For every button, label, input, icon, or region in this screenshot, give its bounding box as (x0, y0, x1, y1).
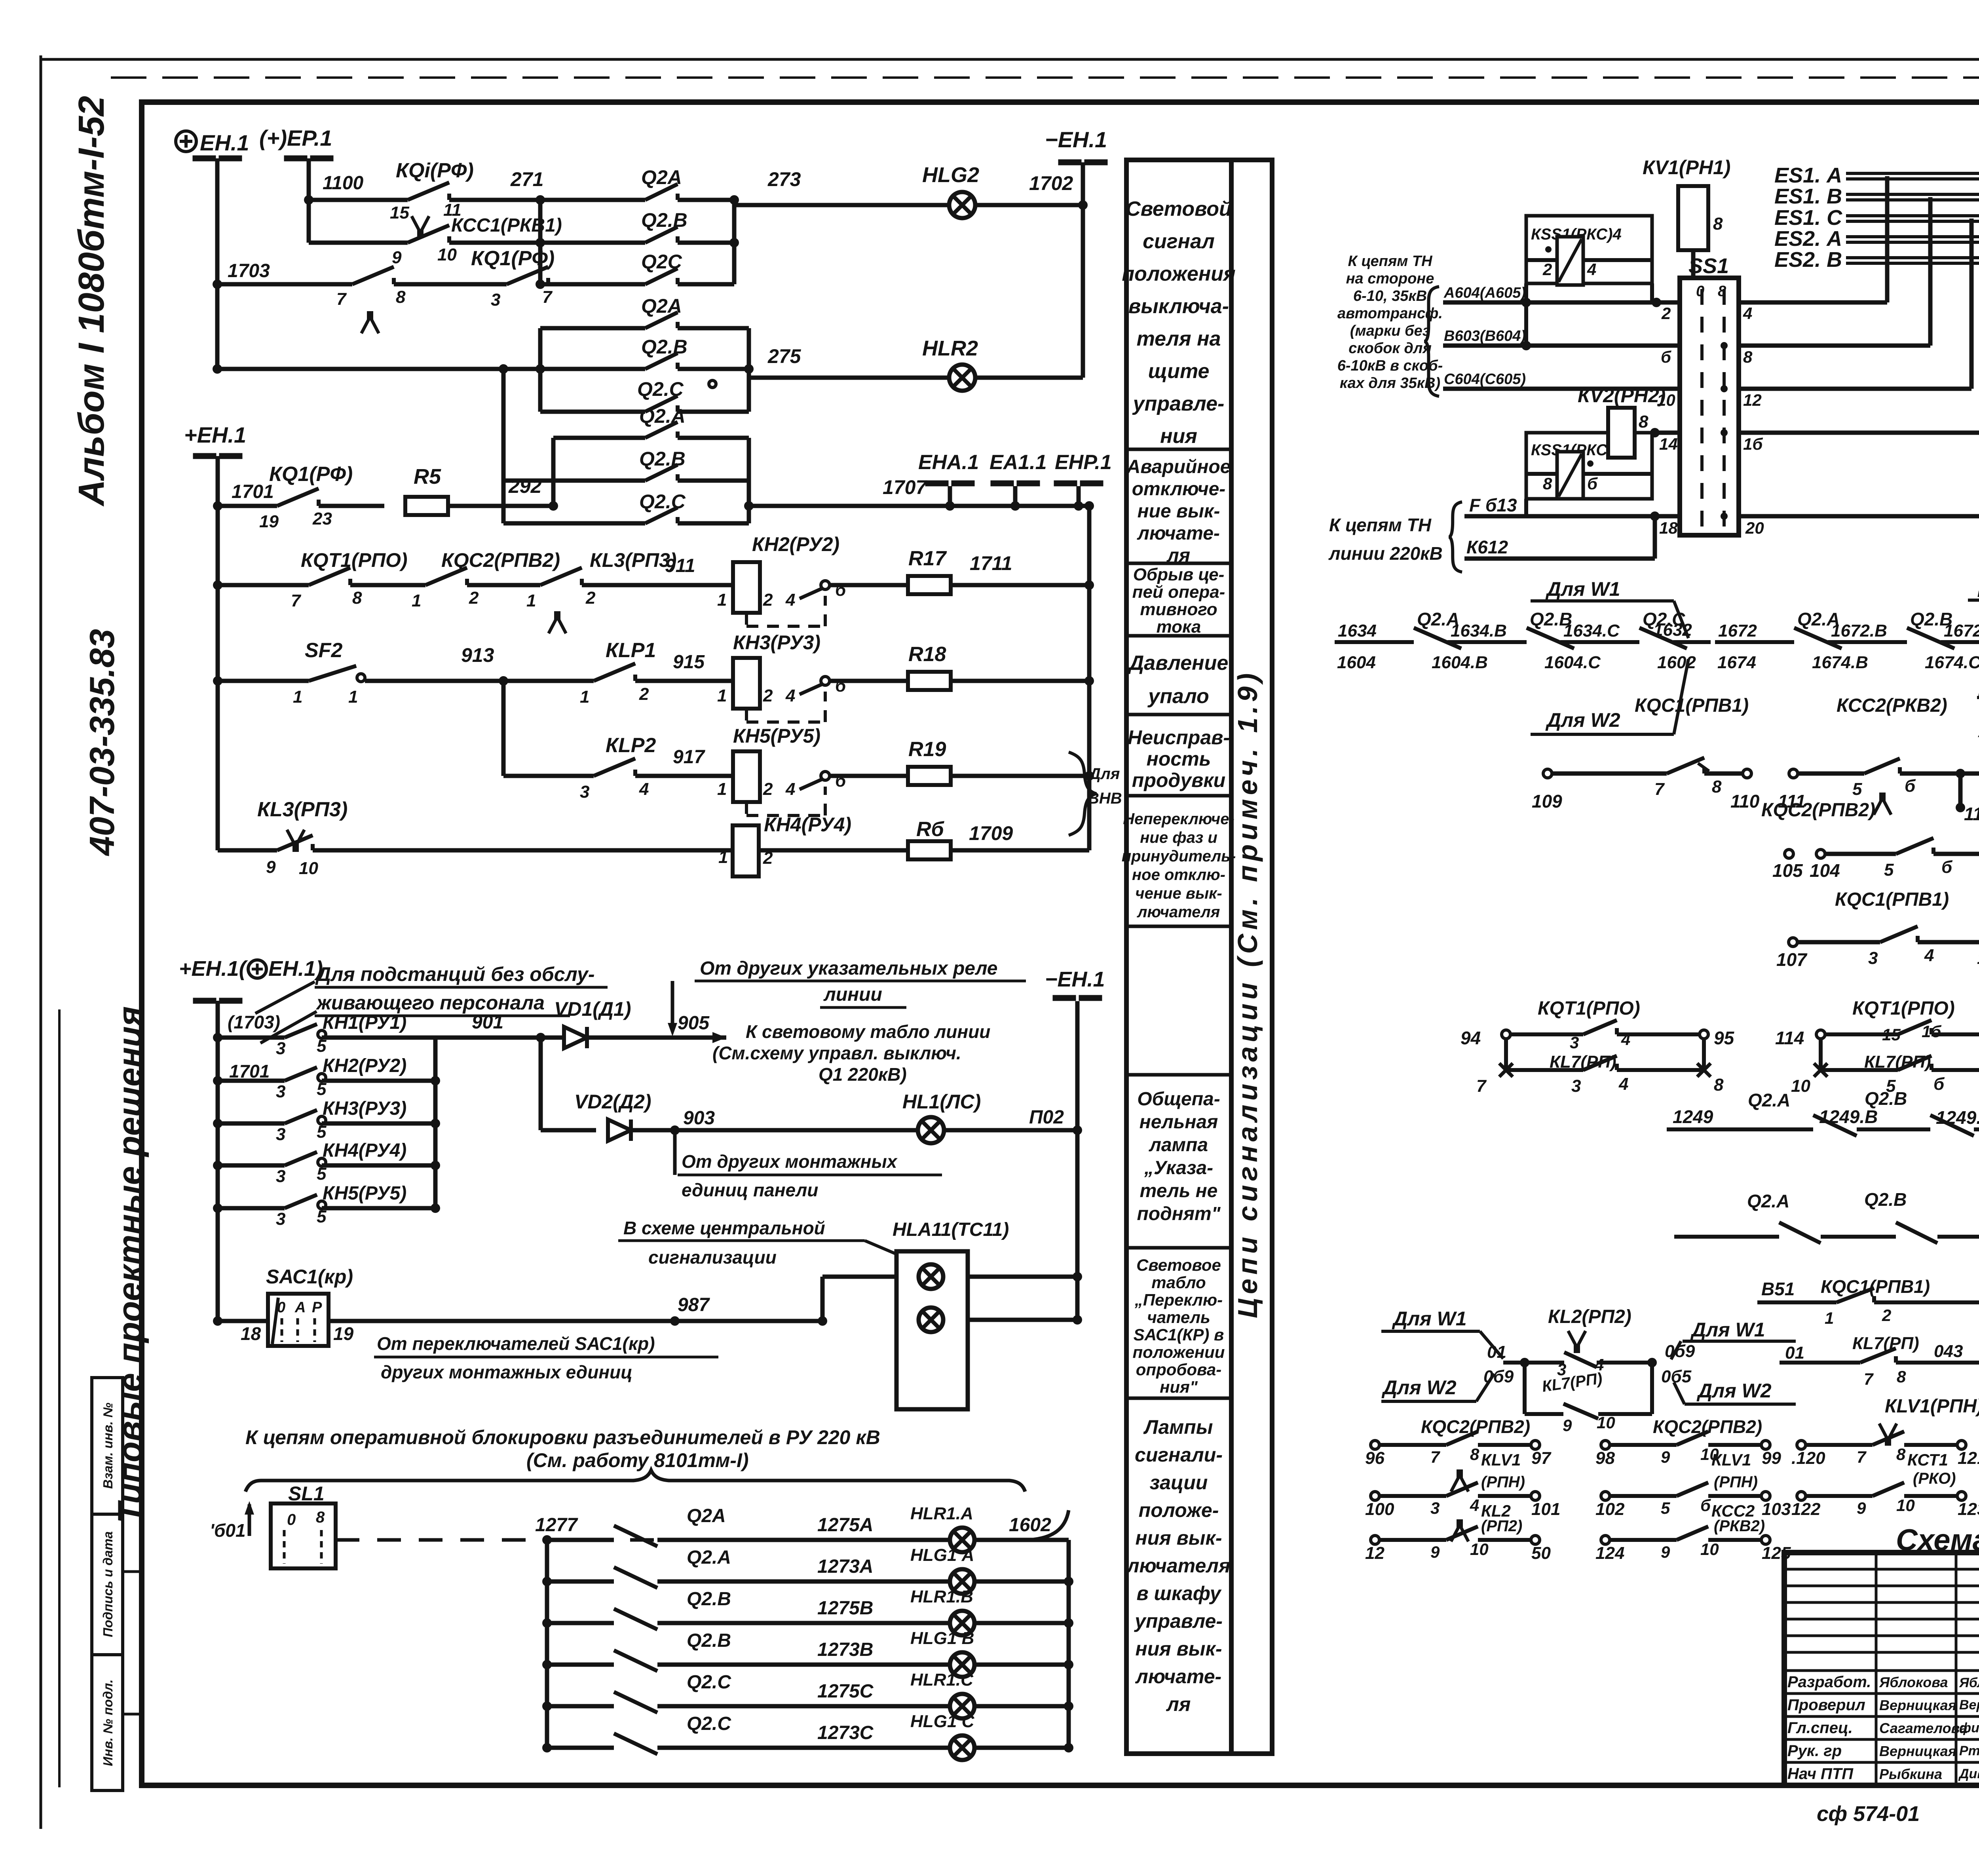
svg-text:НLR1.А: НLR1.А (910, 1504, 973, 1523)
svg-text:(РКВ2): (РКВ2) (1714, 1517, 1765, 1535)
svg-text:6-10, 35кВ: 6-10, 35кВ (1353, 288, 1427, 304)
wire row 905 VD1 (435, 1036, 564, 1040)
svg-text:5: 5 (1661, 1499, 1670, 1517)
svg-text:101: 101 (1531, 1500, 1560, 1519)
bus EA1.1 (991, 481, 1014, 486)
svg-text:лючателя: лючателя (1126, 1555, 1231, 1577)
svg-text:103: 103 (1762, 1500, 1791, 1519)
svg-text:ние вык-: ние вык- (1138, 501, 1220, 522)
svg-text:9: 9 (1430, 1543, 1440, 1561)
lamp HLR2 (949, 365, 975, 391)
svg-text:4: 4 (1618, 1074, 1628, 1094)
bus +EH.1 lower (193, 998, 216, 1004)
svg-text:От переключателей SАС1(кр): От переключателей SАС1(кр) (377, 1333, 655, 1354)
svg-text:4: 4 (1924, 946, 1934, 965)
svg-text:HLG2: HLG2 (922, 163, 979, 187)
wire R6 to node 1709 (951, 848, 1089, 853)
wire КН1(РУ1) to vertical (322, 1036, 435, 1040)
svg-text:Р: Р (312, 1299, 322, 1316)
diode VD1(D1) (564, 1027, 587, 1048)
svg-text:1249.В: 1249.В (1819, 1106, 1878, 1127)
svg-text:F б13: F б13 (1469, 495, 1517, 515)
svg-text:КQС2(РПВ2): КQС2(РПВ2) (1761, 800, 1875, 821)
SS1 right rows to ES buses (1739, 300, 1887, 305)
svg-text:R18: R18 (908, 643, 946, 666)
svg-text:4: 4 (1470, 1496, 1479, 1515)
svg-text:Яблок: Яблок (1959, 1675, 1979, 1690)
page outer border top (41, 58, 1979, 61)
svg-text:1б: 1б (1743, 435, 1763, 453)
svg-text:(РПН): (РПН) (1481, 1473, 1525, 1491)
svg-text:95: 95 (1714, 1028, 1735, 1048)
svg-text:теля на: теля на (1137, 327, 1221, 350)
node 112 (1956, 769, 1965, 778)
lamp НLG1 А (950, 1569, 974, 1594)
svg-text:987: 987 (678, 1294, 710, 1315)
svg-text:Q2А: Q2А (687, 1505, 726, 1526)
dashed link KH3 (745, 709, 748, 722)
row KQC1(RPV1) / KQ1(RF1) 107-108 (1789, 938, 1797, 947)
contact KQi(RF) 15-11 (408, 182, 449, 200)
svg-text:043: 043 (1934, 1342, 1963, 1361)
node rail row KQT1 (213, 580, 222, 590)
wire КН2(РУ2) to vertical (322, 1079, 435, 1083)
contact Q2.C group1 (540, 282, 645, 287)
svg-text:1709: 1709 (969, 822, 1013, 844)
svg-text:КLV1: КLV1 (1481, 1450, 1521, 1469)
parallel group2 left vertical (538, 328, 543, 412)
svg-text:2: 2 (763, 590, 773, 610)
vertical 1366 to VD2 row (539, 1038, 543, 1130)
svg-text:2: 2 (469, 588, 479, 608)
svg-text:1672.В: 1672.В (1831, 621, 1887, 641)
row KQC1(RPV1) 109-110 (1543, 769, 1552, 778)
svg-text:КQТ1(РПО): КQТ1(РПО) (1852, 998, 1955, 1019)
tripod group3 row1 (1879, 1424, 1887, 1438)
bus -EH.1 top (1081, 162, 1085, 205)
breaker contact SF2 1-1 (309, 666, 356, 681)
plus-in-circle symbol EH.1 (176, 131, 196, 152)
svg-text:903: 903 (683, 1108, 715, 1129)
wire row 903 VD2 (541, 1128, 596, 1133)
svg-text:104: 104 (1810, 860, 1840, 881)
svg-text:К цепям ТН: К цепям ТН (1329, 515, 1432, 535)
svg-text:5: 5 (1852, 779, 1862, 799)
svg-text:1604.С: 1604.С (1544, 653, 1601, 672)
svg-text:КН5(РУ5): КН5(РУ5) (733, 725, 820, 747)
svg-text:1277: 1277 (535, 1515, 578, 1536)
svg-text:Подпись и дата: Подпись и дата (101, 1531, 115, 1637)
svg-text:1273А: 1273А (817, 1556, 873, 1577)
svg-text:1634.В: 1634.В (1451, 621, 1507, 641)
svg-text:Типовые проектные решения: Типовые проектные решения (111, 1006, 149, 1523)
svg-text:Q2.В: Q2.В (1864, 1189, 1907, 1210)
terminal grid group3 (1797, 1441, 1806, 1449)
node 1703 (213, 279, 222, 289)
svg-text:0: 0 (1696, 283, 1704, 300)
svg-text:14: 14 (1659, 435, 1678, 453)
svg-text:Рты: Рты (1959, 1743, 1979, 1758)
svg-text:КН4(РУ4): КН4(РУ4) (323, 1140, 406, 1161)
parallel group3 left vertical lower (501, 369, 506, 523)
contact KLP1 1-2 (594, 663, 635, 681)
node 1277 (542, 1535, 552, 1545)
svg-text:ВНВ: ВНВ (1088, 790, 1122, 807)
svg-text:9: 9 (392, 248, 402, 267)
svg-text:КQС1(РПВ1): КQС1(РПВ1) (1635, 695, 1749, 716)
diode VD2(D2) (608, 1120, 631, 1141)
svg-text:в шкафу: в шкафу (1136, 1582, 1221, 1604)
resistor R6 (908, 841, 951, 859)
svg-text:КLР2: КLР2 (606, 734, 656, 757)
svg-text:тель не: тель не (1140, 1180, 1218, 1201)
svg-text:R19: R19 (908, 738, 946, 761)
resistor R18 (908, 672, 951, 690)
svg-text:НLR1.С: НLR1.С (910, 1670, 974, 1690)
svg-text:1: 1 (1825, 1309, 1834, 1327)
svg-text:9: 9 (1661, 1543, 1670, 1561)
svg-text:1634: 1634 (1338, 621, 1377, 641)
svg-text:К цепям оперативной блокировки: К цепям оперативной блокировки разъедини… (245, 1426, 880, 1448)
brace TN phases (1424, 287, 1439, 396)
svg-text:−ЕН.1: −ЕН.1 (1045, 127, 1107, 152)
wire 913 to KLP1 (503, 679, 594, 683)
svg-text:живающего персонала: живающего персонала (315, 992, 545, 1014)
wire to R5 (319, 504, 384, 508)
wire node273 to lamp HLG2 (734, 203, 949, 207)
svg-text:6-10кВ в скоб-: 6-10кВ в скоб- (1337, 357, 1443, 374)
svg-text:8: 8 (1712, 777, 1722, 796)
svg-text:ЕS2. В: ЕS2. В (1774, 248, 1842, 272)
svg-text:8: 8 (352, 588, 362, 608)
wire A604 (1443, 300, 1680, 305)
svg-text:4: 4 (1621, 1030, 1630, 1049)
svg-text:фиг: фиг (1959, 1720, 1979, 1735)
svg-text:Q2.В: Q2.В (639, 448, 686, 470)
svg-text:Световой: Световой (1126, 198, 1232, 220)
wire row КН3(РУ3) (213, 1119, 222, 1128)
svg-text:автотрансф.: автотрансф. (1337, 305, 1443, 322)
svg-text:1: 1 (412, 591, 421, 610)
svg-text:КQ1(РФ): КQ1(РФ) (269, 463, 353, 486)
bus EHA.1 (925, 481, 948, 486)
svg-text:107: 107 (1776, 949, 1808, 970)
svg-text:10: 10 (1597, 1413, 1615, 1432)
svg-text:96: 96 (1365, 1448, 1385, 1468)
lamp rows vertical left (545, 1540, 549, 1748)
title block left verticals (1875, 1553, 1878, 1785)
svg-text:SL1: SL1 (288, 1483, 325, 1505)
node 271 (536, 195, 545, 205)
svg-text:б: б (1587, 474, 1598, 493)
svg-text:8: 8 (1543, 474, 1552, 493)
svg-text:Q2.В: Q2.В (1865, 1088, 1907, 1109)
lamp HLA11 lower (919, 1308, 943, 1332)
svg-text:0б5: 0б5 (1661, 1367, 1692, 1386)
svg-text:8: 8 (1714, 1075, 1724, 1095)
box KSS1(RKS)4 upper (1526, 216, 1652, 283)
relay box KH4(RU4) (733, 825, 759, 876)
svg-text:тивного: тивного (1140, 600, 1217, 619)
wire C604 (1443, 387, 1680, 391)
svg-text:ния вык-: ния вык- (1136, 1527, 1222, 1549)
lamp НLR1.В (950, 1611, 974, 1635)
wire KH3 to R18 (830, 679, 908, 683)
branch 913 vertical (501, 681, 506, 776)
svg-text:КQi(РФ): КQi(РФ) (396, 159, 474, 182)
svg-text:8: 8 (1896, 1445, 1906, 1464)
wire KH4 to R6 (759, 848, 908, 853)
svg-text:ля: ля (1166, 1693, 1191, 1715)
wire КН5(РУ5) to vertical (322, 1206, 435, 1211)
svg-text:ния вык-: ния вык- (1136, 1638, 1222, 1660)
svg-text:7: 7 (542, 287, 553, 307)
svg-text:Q2.В: Q2.В (641, 336, 688, 358)
wire HL1 to node P02 (943, 1128, 1077, 1133)
svg-text:5: 5 (1884, 860, 1894, 880)
svg-text:От других монтажных: От других монтажных (682, 1151, 898, 1172)
svg-text:1275А: 1275А (817, 1515, 873, 1536)
svg-text:чатель: чатель (1147, 1308, 1210, 1327)
svg-text:8: 8 (1639, 412, 1649, 431)
svg-text:пей опера-: пей опера- (1132, 582, 1225, 602)
svg-text:ния: ния (1160, 425, 1197, 448)
lamp НLG1 В (950, 1652, 974, 1677)
svg-text:Q2.С: Q2.С (637, 378, 684, 400)
svg-text:124: 124 (1595, 1543, 1624, 1563)
svg-text:7: 7 (291, 591, 302, 610)
node rail row SF2 (213, 676, 222, 686)
svg-text:275: 275 (767, 345, 801, 367)
svg-text:19: 19 (259, 512, 279, 531)
svg-text:С604(С605): С604(С605) (1444, 371, 1526, 388)
wire HLA11 right upper (968, 1275, 1077, 1279)
circle contact 6 KH5 (821, 772, 830, 780)
svg-text:КL2(РП2): КL2(РП2) (1548, 1306, 1631, 1327)
lamp row 1273С НLG1 С (542, 1743, 552, 1752)
svg-text:102: 102 (1595, 1500, 1625, 1519)
wire HLA11 right lower (968, 1318, 1077, 1322)
svg-text:12: 12 (1365, 1543, 1385, 1563)
svg-text:ЕS1. В: ЕS1. В (1774, 184, 1842, 208)
svg-text:КL7(РП): КL7(РП) (1852, 1334, 1919, 1353)
svg-text:ния": ния" (1160, 1378, 1198, 1396)
svg-text:положения: положения (1122, 262, 1235, 285)
box KL7 under KL2 (1523, 1363, 1527, 1414)
bus (+)EP.1 top (284, 156, 307, 161)
page outer border left (40, 55, 42, 1829)
brace TN line (1449, 502, 1462, 572)
title block left revision rows (1784, 1568, 1979, 1571)
svg-text:Неисправ-: Неисправ- (1128, 726, 1230, 749)
svg-text:поднят": поднят" (1137, 1203, 1221, 1224)
svg-text:98: 98 (1595, 1448, 1615, 1468)
wire row3 (394, 282, 507, 287)
svg-text:НLG1 С: НLG1 С (910, 1712, 975, 1731)
wire row1 contact to node 271 (449, 198, 540, 202)
wire VD1 to 905 arrow (588, 1036, 726, 1040)
wire row3 to vertical (540, 282, 548, 287)
relay box KH5(RU5) (733, 751, 760, 802)
title block signature rows (1784, 1692, 1979, 1695)
svg-text:292: 292 (508, 475, 542, 497)
svg-text:VD1(Д1): VD1(Д1) (554, 998, 631, 1020)
svg-text:К612: К612 (1466, 537, 1508, 557)
svg-text:других монтажных единиц: других монтажных единиц (381, 1362, 632, 1382)
svg-text:сигнал: сигнал (1143, 230, 1215, 253)
wire row1 to contact KQi (309, 198, 408, 202)
right vertical to minus bus (1075, 1130, 1080, 1320)
svg-text:Рук. гр: Рук. гр (1787, 1742, 1842, 1760)
svg-text:Для W1: Для W1 (1690, 1319, 1765, 1341)
svg-text:б: б (1933, 1074, 1945, 1094)
svg-text:Аварийное: Аварийное (1126, 456, 1231, 477)
contact KQC2(RPV2) 1-2 (425, 568, 467, 585)
svg-text:КН2(РУ2): КН2(РУ2) (323, 1055, 406, 1076)
KV2 coil rect (1608, 408, 1635, 458)
svg-text:VD2(Д2): VD2(Д2) (574, 1091, 651, 1113)
row KQC2(RPV2) 105-106 (1785, 850, 1793, 858)
wire to KH2 label 9H (582, 583, 733, 587)
svg-text:Q2.В: Q2.В (687, 1630, 731, 1651)
svg-text:КСС2(РКВ2): КСС2(РКВ2) (1837, 695, 1947, 716)
svg-text:1: 1 (717, 779, 727, 799)
svg-text:10: 10 (1700, 1540, 1719, 1559)
svg-text:КLР1: КLР1 (606, 639, 656, 662)
svg-text:2: 2 (1661, 304, 1671, 323)
svg-text:1275В: 1275В (817, 1598, 873, 1619)
knife switch КН1(РУ1) 3-5 (285, 1024, 317, 1038)
svg-text:сигнализации: сигнализации (648, 1247, 777, 1268)
svg-text:18: 18 (1659, 519, 1678, 537)
big figure bracket (245, 1470, 1025, 1492)
arrow from ukazatelnye rele text (671, 981, 674, 1029)
circle contact 6 KH2 (821, 581, 830, 589)
svg-text:1674: 1674 (1717, 653, 1756, 672)
svg-text:3: 3 (276, 1082, 285, 1101)
page inner thin line left (58, 1009, 61, 1787)
svg-text:Проверил: Проверил (1787, 1696, 1865, 1714)
svg-text:линии 220кВ: линии 220кВ (1328, 543, 1443, 564)
svg-text:915: 915 (673, 652, 705, 673)
svg-text:01: 01 (1785, 1343, 1804, 1363)
dashed wire 1277 continue (547, 1538, 1029, 1542)
svg-text:4: 4 (785, 590, 795, 610)
box KSS1 lower stem to F613 (1524, 499, 1528, 516)
node 1701 (213, 501, 222, 511)
svg-text:1602: 1602 (1657, 653, 1696, 672)
svg-text:зации: зации (1150, 1471, 1208, 1494)
svg-text:Q2.А: Q2.А (639, 405, 686, 427)
svg-text:Разработ.: Разработ. (1787, 1673, 1871, 1691)
dashed wire 1277 (336, 1538, 547, 1542)
ES horizontal buses (1846, 172, 1979, 175)
ladder right vertical (433, 1038, 438, 1208)
svg-text:9: 9 (1857, 1499, 1866, 1517)
svg-text:КL3(РП3): КL3(РП3) (590, 549, 677, 571)
svg-text:7: 7 (1864, 1370, 1874, 1388)
svg-text:КQС1(РПВ1): КQС1(РПВ1) (1821, 1276, 1930, 1297)
svg-text:0: 0 (287, 1511, 296, 1528)
svg-text:НLА11(ТС11): НLА11(ТС11) (893, 1219, 1009, 1240)
svg-text:лючате-: лючате- (1137, 523, 1220, 544)
svg-text:7: 7 (336, 289, 347, 309)
svg-text:Верницкая: Верницкая (1879, 1697, 1956, 1713)
dashed link KH5 (745, 802, 748, 815)
wire row КН4(РУ4) (213, 1161, 222, 1170)
svg-text:917: 917 (673, 747, 705, 768)
K612 riser (1653, 516, 1657, 559)
svg-text:ля: ля (1166, 545, 1190, 566)
rail EH.1 vertical (215, 173, 220, 369)
node P02 (1073, 1125, 1082, 1135)
svg-text:Рыбкина: Рыбкина (1879, 1766, 1942, 1782)
wire to KL3 (467, 583, 540, 587)
svg-text:2: 2 (585, 588, 596, 608)
svg-text:10: 10 (1470, 1540, 1489, 1559)
svg-text:Верницкая: Верницкая (1879, 1743, 1956, 1759)
svg-text:01: 01 (1487, 1342, 1506, 1362)
svg-text:Q2А: Q2А (641, 166, 682, 188)
bus +EH.1 mid (193, 453, 216, 459)
svg-text:Для: Для (1088, 765, 1120, 783)
tripods group1 (1451, 1477, 1459, 1492)
svg-text:Для W2: Для W2 (1381, 1376, 1457, 1399)
contact KQT1(RPO) 7-8 (309, 568, 350, 585)
contact KL2 with anchor (1568, 1331, 1576, 1345)
svg-text:чение вык-: чение вык- (1135, 885, 1222, 902)
lamp НLG1 С (950, 1735, 974, 1760)
svg-text:КQТ1(РПО): КQТ1(РПО) (301, 549, 407, 571)
svg-text:на стороне: на стороне (1346, 270, 1434, 287)
svg-text:110: 110 (1730, 791, 1760, 812)
svg-text:1273С: 1273С (817, 1722, 874, 1743)
wire R5 to node 292 (448, 504, 553, 508)
svg-text:скобок для: скобок для (1348, 340, 1432, 357)
svg-text:(РП2): (РП2) (1481, 1517, 1522, 1535)
svg-text:(См. работу 8101тм-I): (См. работу 8101тм-I) (526, 1449, 749, 1471)
svg-text:А604(А605): А604(А605) (1443, 285, 1526, 301)
svg-text:отключе-: отключе- (1132, 479, 1226, 500)
wire lamp to node 1702 (975, 203, 1083, 207)
resistor R19 (908, 767, 951, 785)
svg-text:3: 3 (1430, 1499, 1440, 1517)
svg-text:НLG1 А: НLG1 А (910, 1545, 974, 1565)
svg-text:Сагателова: Сагателова (1879, 1720, 1968, 1736)
small circle mark (709, 380, 716, 388)
svg-text:К световому табло линии: К световому табло линии (746, 1021, 990, 1042)
wire row КН5(РУ5) (213, 1203, 222, 1213)
svg-text:Вер: Вер (1959, 1697, 1979, 1713)
box KSS1(RKS)4 lower (1526, 433, 1652, 499)
svg-text:1: 1 (580, 687, 589, 707)
svg-text:8: 8 (1470, 1445, 1480, 1464)
svg-text:Яблокова: Яблокова (1879, 1674, 1948, 1690)
svg-text:50: 50 (1531, 1543, 1551, 1563)
svg-text:сф 574-01: сф 574-01 (1817, 1802, 1920, 1826)
svg-text:1100: 1100 (323, 173, 364, 194)
wire R17 to node 1711 (951, 583, 1089, 587)
svg-text:1701: 1701 (232, 481, 274, 502)
lamp row 1273В НLG1 В (542, 1660, 552, 1669)
lamp rows vertical right (1067, 1540, 1071, 1748)
svg-text:97: 97 (1531, 1448, 1552, 1468)
svg-text:121: 121 (1958, 1448, 1979, 1468)
svg-text:линии: линии (823, 984, 882, 1005)
contact KL3(RP3) 1-2 with anchor (540, 568, 582, 585)
wire HLA11 left upper (822, 1275, 896, 1279)
svg-text:КQС2(РПВ2): КQС2(РПВ2) (441, 549, 560, 571)
